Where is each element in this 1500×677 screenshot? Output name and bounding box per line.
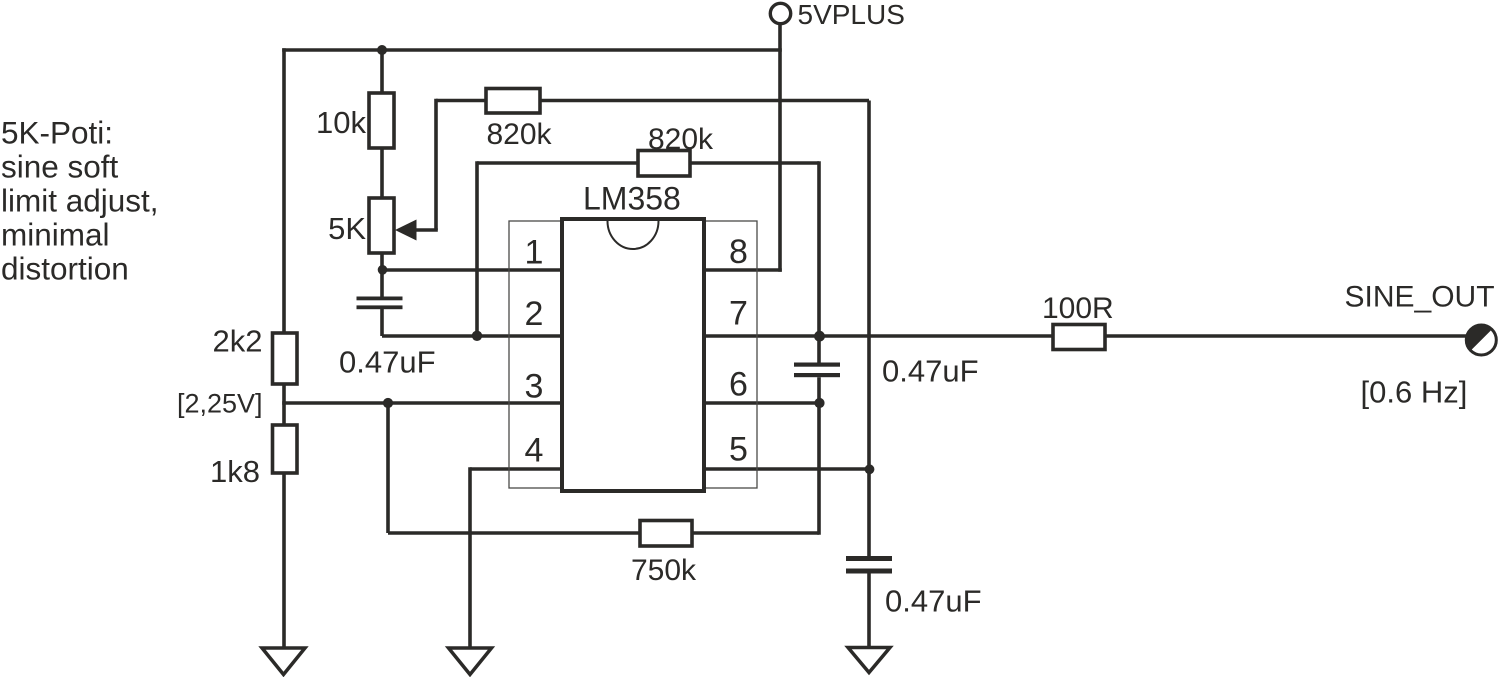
wire C1 bottom lead	[380, 309, 384, 336]
svg-text:[2,25V]: [2,25V]	[177, 389, 263, 419]
wire 5VPLUS vertical	[778, 24, 782, 272]
wire pin5	[704, 467, 869, 471]
junction pin3/750k	[383, 398, 393, 408]
wire pin8	[704, 268, 782, 272]
resistor R3 820k body	[638, 151, 690, 177]
svg-text:0.47uF: 0.47uF	[885, 583, 982, 618]
svg-text:820k: 820k	[487, 118, 553, 151]
junction output/C2	[814, 331, 825, 342]
svg-text:0.47uF: 0.47uF	[882, 354, 979, 389]
wire 10k/poti column	[380, 50, 384, 297]
junction pin5/C3	[865, 464, 875, 474]
wire poti wiper stub	[414, 228, 438, 232]
wire pin6	[704, 401, 819, 405]
wire 750k left vertical	[386, 403, 390, 533]
svg-text:8: 8	[729, 233, 748, 271]
IC U1 outer outline	[509, 221, 757, 488]
potentiometer wiper arrow	[395, 220, 417, 241]
svg-text:10k: 10k	[316, 105, 366, 140]
svg-text:750k: 750k	[631, 554, 697, 587]
svg-text:100R: 100R	[1042, 292, 1114, 325]
wire top rail	[282, 48, 782, 52]
svg-text:1: 1	[525, 234, 544, 272]
svg-text:SINE_OUT: SINE_OUT	[1345, 280, 1495, 313]
wire pin4 ground vertical	[468, 467, 472, 649]
svg-text:2: 2	[525, 295, 544, 333]
junction top of 10k	[377, 45, 387, 55]
svg-text:LM358: LM358	[583, 180, 681, 216]
wire pin2	[382, 334, 562, 338]
svg-text:6: 6	[729, 366, 748, 404]
wire R3 right vertical	[817, 161, 821, 362]
junction C2/pin6	[814, 398, 824, 408]
wire 750k row	[388, 531, 819, 535]
wire C3 to ground	[867, 573, 871, 649]
svg-text:[0.6 Hz]: [0.6 Hz]	[1361, 375, 1468, 410]
svg-text:5K: 5K	[328, 211, 366, 246]
resistor R2 820k body	[486, 89, 540, 114]
svg-text:4: 4	[525, 432, 544, 470]
wire 2k2 to 1k8	[282, 384, 286, 426]
junction pin2/R3	[472, 331, 482, 341]
wire poti wiper vertical	[434, 99, 438, 230]
IC U1 body	[562, 219, 704, 491]
wire right column x869	[867, 101, 871, 557]
wire 820k R3 row	[477, 161, 819, 165]
svg-text:minimal: minimal	[1, 217, 110, 253]
wire pin3	[282, 401, 562, 405]
svg-text:1k8: 1k8	[210, 454, 260, 489]
capacitor C1 plates	[357, 297, 403, 310]
capacitor C2 plates	[794, 363, 840, 378]
output terminal SINE_OUT circle	[1466, 325, 1496, 355]
wire pin1	[382, 268, 562, 272]
wire 1k8 to ground	[282, 473, 286, 649]
svg-text:5K-Poti:: 5K-Poti:	[1, 114, 113, 150]
ground symbol G1	[262, 648, 305, 675]
wire C2 bottom lead	[817, 377, 821, 535]
output terminal SINE_OUT half disk	[1466, 325, 1492, 351]
resistor R8 100R body	[1053, 325, 1105, 350]
ground symbol G3	[848, 648, 890, 673]
resistor R5 2k2 body	[273, 333, 298, 384]
power terminal 5VPLUS circle	[770, 3, 790, 23]
wire pin7 / output row	[704, 334, 1467, 338]
wire pin4	[470, 467, 562, 471]
wire R3 left vertical	[475, 161, 479, 336]
svg-text:distortion: distortion	[1, 251, 129, 287]
svg-text:5VPLUS: 5VPLUS	[798, 0, 905, 30]
resistor R1 10k body	[369, 93, 394, 148]
svg-text:2k2: 2k2	[213, 324, 263, 359]
resistor R7 750k body	[640, 521, 692, 547]
svg-text:0.47uF: 0.47uF	[339, 345, 436, 380]
ground symbol G2	[449, 648, 492, 675]
svg-text:5: 5	[729, 431, 748, 469]
svg-text:sine soft: sine soft	[1, 148, 119, 184]
svg-text:820k: 820k	[648, 123, 714, 156]
svg-text:limit adjust,: limit adjust,	[1, 183, 159, 219]
svg-text:3: 3	[525, 368, 544, 406]
IC U1 notch	[608, 221, 659, 249]
wire 820k R2 row	[436, 99, 869, 103]
wire left rail	[282, 48, 286, 335]
svg-text:7: 7	[729, 295, 748, 333]
resistor R4 1k8 body	[273, 425, 298, 473]
junction poti/C1/pin1	[378, 265, 388, 275]
potentiometer R6 5K body	[369, 198, 394, 253]
capacitor C3 plates	[846, 556, 892, 574]
